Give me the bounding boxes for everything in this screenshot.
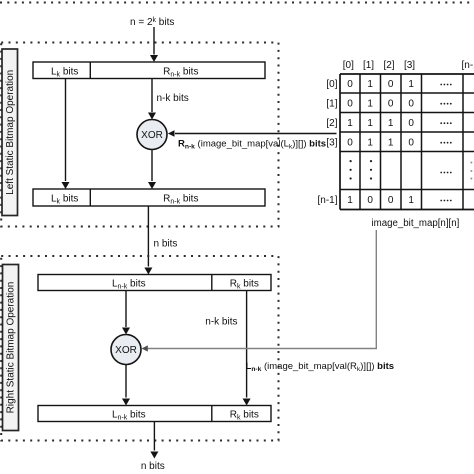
bar 1 (Lk | Rn-k) <box>33 62 265 79</box>
svg-text:1: 1 <box>367 118 373 129</box>
svg-text:0: 0 <box>408 118 414 129</box>
svg-text:n bits: n bits <box>154 239 178 250</box>
svg-text:0: 0 <box>408 98 414 109</box>
svg-text:1: 1 <box>408 79 414 90</box>
svg-text:Right Static Bitmap Operation: Right Static Bitmap Operation <box>6 282 17 414</box>
table column headers <box>343 60 474 71</box>
svg-text:image_bit_map[n][n]: image_bit_map[n][n] <box>372 218 460 229</box>
svg-text:[1]: [1] <box>363 60 374 71</box>
svg-text:Ln-k bits: Ln-k bits <box>112 409 146 421</box>
svg-text:Ln-k bits: Ln-k bits <box>112 278 146 290</box>
svg-text:Rn-k (image_bit_map[val(Lk)][]: Rn-k (image_bit_map[val(Lk)][]) bits <box>178 139 326 151</box>
bar 3 (Ln-k | Rk) <box>38 275 271 291</box>
top crop dotted line <box>0 2 474 4</box>
table cell values <box>347 79 414 206</box>
svg-text:1: 1 <box>347 195 353 206</box>
svg-text:0: 0 <box>347 137 353 148</box>
svg-text:[2]: [2] <box>383 60 394 71</box>
bar 4 (Ln-k | Rk) <box>38 406 271 422</box>
svg-text:[n-1]: [n-1] <box>461 60 474 71</box>
wire XOR1 down to bar 2 <box>151 150 153 182</box>
svg-text:[0]: [0] <box>343 60 354 71</box>
wire from table into XOR1 <box>175 133 337 135</box>
svg-text:n = 2k bits: n = 2k bits <box>130 17 174 28</box>
wire Rn-k down into XOR1 <box>151 79 153 113</box>
svg-text:0: 0 <box>388 195 394 206</box>
left label box 1 <box>2 49 18 216</box>
svg-text:n-k bits: n-k bits <box>157 93 189 104</box>
wire XOR2 down to bar 4 <box>125 365 127 398</box>
svg-text:0: 0 <box>367 195 373 206</box>
svg-text:1: 1 <box>367 79 373 90</box>
XOR node 2 <box>111 335 141 365</box>
svg-text:1: 1 <box>408 195 414 206</box>
svg-text:Rk bits: Rk bits <box>230 409 259 421</box>
svg-text:Left Static Bitmap Operation: Left Static Bitmap Operation <box>5 70 16 195</box>
svg-text:1: 1 <box>347 118 353 129</box>
XOR node 1 <box>137 120 167 150</box>
svg-text:[3]: [3] <box>326 137 337 148</box>
svg-text:1: 1 <box>367 98 373 109</box>
table vertical-dots row glyphs <box>350 160 473 180</box>
svg-text:[1]: [1] <box>326 98 337 109</box>
svg-text:n-k bits: n-k bits <box>205 317 237 328</box>
svg-text:[n-1]: [n-1] <box>317 195 337 206</box>
left label box 2 <box>3 265 19 431</box>
wire Ln-k down into XOR2 <box>125 291 127 328</box>
wire Rk down to bar 4, n-k bits label <box>246 291 248 398</box>
svg-text:Rn-k bits: Rn-k bits <box>163 194 198 206</box>
svg-text:[3]: [3] <box>404 60 415 71</box>
svg-text:[0]: [0] <box>326 79 337 90</box>
svg-text:0: 0 <box>408 137 414 148</box>
wire Lk down to bar 2 <box>65 79 67 182</box>
svg-text:n bits: n bits <box>141 461 165 472</box>
svg-text:Ln-k (image_bit_map[val(Rk)][]: Ln-k (image_bit_map[val(Rk)][]) bits <box>246 361 395 373</box>
svg-text:0: 0 <box>347 79 353 90</box>
table row headers <box>317 79 337 206</box>
wire between blocks, n bits <box>147 206 149 267</box>
svg-text:1: 1 <box>388 118 394 129</box>
svg-text:Rk bits: Rk bits <box>230 278 259 290</box>
table image_bit_map grid <box>340 74 474 210</box>
svg-text:1: 1 <box>367 137 373 148</box>
table ellipsis dots column <box>440 84 451 202</box>
output wire n bits <box>153 422 155 451</box>
svg-text:XOR: XOR <box>141 130 163 141</box>
svg-text:[2]: [2] <box>326 118 337 129</box>
dashed box Left Static Bitmap Operation <box>1 43 278 227</box>
wire arrow into top bar <box>153 27 155 55</box>
dashed box Right Static Bitmap Operation <box>1 256 278 441</box>
svg-text:0: 0 <box>347 98 353 109</box>
gray wire from image_bit_map table into XOR2 <box>147 230 376 349</box>
svg-text:Lk bits: Lk bits <box>51 67 78 79</box>
svg-text:1: 1 <box>388 137 394 148</box>
bar 2 (Lk | Rn-k) <box>33 189 265 206</box>
svg-text:0: 0 <box>388 79 394 90</box>
svg-text:Rn-k bits: Rn-k bits <box>163 67 198 79</box>
svg-text:Lk bits: Lk bits <box>51 194 78 206</box>
svg-text:0: 0 <box>388 98 394 109</box>
svg-text:XOR: XOR <box>115 345 137 356</box>
